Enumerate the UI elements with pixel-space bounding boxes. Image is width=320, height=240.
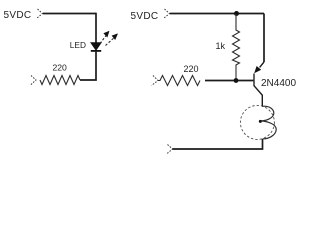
resistor R2 1k vertical with leads — [233, 14, 240, 81]
wire: LED cathode down then left to resistor — [80, 51, 96, 80]
svg-text:5VDC: 5VDC — [131, 11, 159, 22]
svg-text:2N4400: 2N4400 — [261, 78, 296, 89]
terminal connector at left resistor — [31, 76, 37, 86]
junction dot at base node — [234, 78, 239, 83]
wire: right top rail — [170, 13, 264, 15]
wire: vertical drop into LED anode — [95, 13, 97, 43]
terminal connector at right 5VDC input — [164, 9, 170, 19]
LED D1 triangle (anode) — [91, 43, 101, 51]
wire: top rail corner down to transistor collector lead — [263, 14, 265, 63]
wire: lamp bottom down and left along bottom rail — [173, 139, 263, 149]
LED cathode bar — [91, 50, 101, 52]
lamp DS1 bulb circle — [240, 105, 274, 139]
svg-text:1k: 1k — [216, 41, 226, 51]
svg-text:220: 220 — [53, 63, 68, 73]
LED light emission arrow 2 — [106, 33, 119, 45]
terminal connector at bottom rail return — [167, 145, 173, 155]
resistor R1 220 zigzag (left circuit) — [40, 76, 80, 85]
svg-text:5VDC: 5VDC — [4, 10, 32, 21]
wire: left top rail from connector to corner — [43, 13, 96, 15]
svg-text:LED: LED — [70, 40, 86, 50]
junction dot on top rail — [234, 11, 239, 16]
lamp filament (3-shaped) — [261, 106, 277, 139]
transistor Q1 lower (emitter) lead — [254, 86, 262, 106]
filament junction dot — [259, 120, 262, 123]
LED light emission arrow 1 — [100, 31, 110, 44]
svg-text:220: 220 — [184, 64, 199, 74]
resistor R3 220 zigzag (right circuit) — [158, 76, 200, 86]
transistor Q1 base bar — [253, 74, 255, 87]
transistor Q1 upper lead with arrow toward base — [254, 62, 264, 73]
terminal connector at right 220 resistor — [152, 76, 159, 86]
wire: base wire from resistor to transistor — [205, 80, 254, 82]
terminal connector at left 5VDC input — [37, 9, 43, 19]
